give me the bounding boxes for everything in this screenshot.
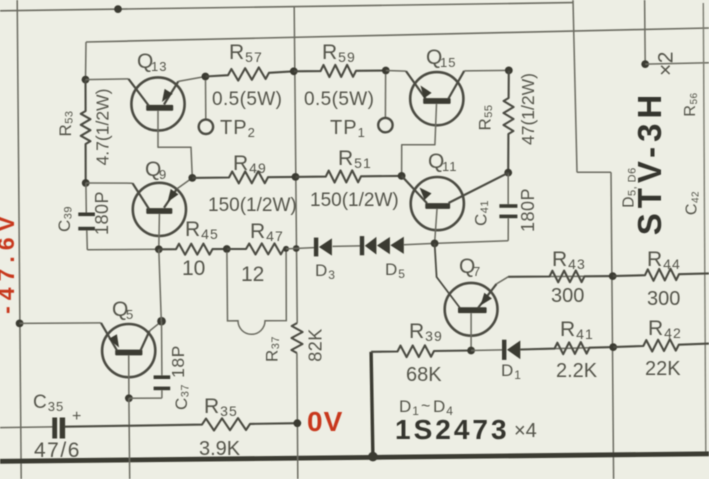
resistor R47 [227, 243, 286, 254]
resistor R51 [296, 170, 402, 182]
Q7 collector lead [435, 243, 460, 308]
test point TP1 [378, 118, 392, 132]
wire power bus top [0, 3, 573, 11]
wire C37 to Q5 base [161, 390, 163, 398]
node Q5 collector [157, 317, 166, 326]
Q5 emitter arrow [109, 334, 119, 347]
node Q11 emitter [398, 172, 406, 180]
svg-text:0.5(5W): 0.5(5W) [212, 89, 282, 110]
junction on bottom bus [368, 452, 378, 462]
wire step horizontal [577, 171, 611, 173]
wire D1 to R41 [520, 347, 613, 349]
Q5 collector lead [141, 331, 150, 351]
Q13 collector lead [86, 78, 129, 81]
node Q5 base [125, 394, 133, 402]
svg-text:2.2K: 2.2K [556, 360, 598, 382]
wire 0V rail left [0, 426, 53, 429]
svg-text:0.5(5W): 0.5(5W) [304, 89, 374, 110]
wire collector feed line [86, 28, 709, 42]
capacitor C35 [52, 418, 57, 439]
diode D3 [314, 238, 318, 257]
Q11 collector lead [449, 173, 509, 203]
resistor R49 [192, 171, 295, 183]
diode D5 first [360, 236, 364, 255]
svg-text:9: 9 [159, 167, 167, 182]
Q15 base bar [423, 98, 450, 104]
wire C41 to Q11 base node [507, 218, 509, 241]
wire thick vertical to bus [371, 352, 373, 457]
svg-text:180P: 180P [518, 188, 538, 232]
Q13 emitter arrow [162, 89, 173, 102]
capacitor C41 [499, 204, 517, 208]
resistor R44 [613, 269, 709, 281]
wire Q5 base down to bus [128, 398, 131, 479]
wire right vertical lower [611, 172, 614, 479]
Q13 emitter lead [164, 81, 178, 104]
svg-text:150(1/2W): 150(1/2W) [310, 190, 399, 211]
Q9 emitter lead [164, 189, 177, 208]
svg-text:18P: 18P [168, 345, 188, 378]
Q7 base bar [458, 307, 487, 313]
Q13 base wire to Q9 emitter node [158, 111, 192, 178]
Q15 emitter arrow [421, 86, 432, 99]
transistor Q5 [102, 324, 155, 377]
wire far-right vertical upper [644, 0, 647, 64]
resistor R39 [371, 345, 471, 357]
svg-text:12: 12 [241, 263, 264, 286]
resistor R35 on 0V line [65, 418, 298, 430]
node 0V / middle rail [293, 419, 301, 427]
resistor R41 [520, 342, 613, 354]
svg-text:3.9K: 3.9K [199, 438, 241, 460]
diode D1 [502, 340, 506, 360]
test point TP2 [199, 120, 213, 134]
node Q15 emitter [382, 67, 390, 75]
svg-text:13: 13 [151, 59, 167, 74]
svg-text:STV-3H: STV-3H [631, 90, 668, 236]
Q11 base bar [425, 203, 450, 209]
Q15 emitter lead [386, 70, 406, 73]
node Q7 base [467, 347, 475, 355]
resistor R57 [205, 67, 293, 80]
wire middle vertical rail upper [294, 7, 297, 322]
node Q11 collector [504, 169, 512, 177]
wire right edge vertical [703, 3, 706, 454]
capacitor C37 [154, 375, 171, 379]
wire D3 to D5 [333, 245, 361, 248]
wire loop under R47 [227, 249, 286, 334]
resistor R59 [294, 65, 386, 77]
node Q9 emitter [188, 174, 196, 182]
Q15 base wire to Q11 emitter node [402, 104, 437, 176]
node Q15 collector [505, 67, 513, 75]
node Q13 collector [82, 76, 90, 84]
transistor Q7 [445, 283, 498, 336]
wire to C41 [507, 173, 509, 205]
transistor Q9 [133, 183, 186, 236]
svg-text:×4: ×4 [514, 420, 537, 442]
svg-text:300: 300 [551, 285, 584, 307]
node R43/R44 [609, 272, 617, 280]
junction on top bus [114, 5, 122, 13]
svg-text:150(1/2W): 150(1/2W) [208, 195, 297, 216]
wire to D1 [471, 349, 502, 352]
Q5 base lead [128, 355, 130, 398]
node R47 right [283, 246, 289, 252]
svg-text:10: 10 [182, 257, 205, 280]
svg-text:68K: 68K [406, 364, 442, 386]
svg-text:180P: 180P [92, 191, 112, 235]
svg-text:0V: 0V [307, 406, 343, 437]
junction node right [641, 60, 649, 68]
svg-text:82K: 82K [305, 328, 325, 362]
node Q9 collector [82, 179, 90, 187]
Q9 collector lead [86, 182, 133, 184]
wire right vertical from bus end [573, 0, 577, 172]
diode D5 second [377, 237, 390, 254]
Q11 base lead [435, 209, 437, 243]
node R41/R42 [609, 343, 617, 351]
junction middle rail / diode row [293, 245, 300, 252]
svg-text:+: + [72, 408, 81, 425]
svg-text:7: 7 [473, 264, 481, 279]
svg-text:×2: ×2 [655, 51, 678, 76]
svg-text:~: ~ [421, 398, 430, 415]
svg-text:5: 5 [126, 307, 134, 322]
wire Q9 base node down to Q5 collector node [159, 249, 162, 321]
wire to D3 [286, 248, 314, 249]
node left rail to Q5 [16, 320, 24, 328]
Q7 base lead [470, 313, 472, 350]
capacitor C39 [78, 213, 95, 217]
Q5 emitter lead [20, 322, 101, 325]
Q7 emitter arrow [481, 293, 492, 306]
wire middle vertical rail lower [296, 322, 298, 323]
wire thick bottom bus [0, 454, 709, 462]
wire inner-box left drop [85, 42, 88, 80]
wire C39 to Q9 base node [86, 230, 89, 249]
svg-text:15: 15 [440, 55, 456, 70]
Q15 collector lead [449, 71, 465, 99]
wire to C39 [85, 183, 87, 213]
diode D5 third [390, 237, 403, 254]
svg-text:47(1/2W): 47(1/2W) [518, 73, 538, 145]
wire to TP1 [384, 74, 386, 118]
svg-text:11: 11 [442, 159, 458, 174]
resistor R42 [613, 339, 709, 351]
Q13 base bar [146, 105, 173, 111]
svg-text:4.7(1/2W): 4.7(1/2W) [93, 89, 113, 166]
svg-text:300: 300 [647, 288, 680, 310]
node Q9 base / R45 [155, 245, 163, 253]
wire left vertical rail [17, 0, 21, 479]
Q9 base bar [146, 208, 172, 214]
Q7 emitter lead [478, 284, 497, 308]
node Q11 base / Q7 collector [431, 240, 439, 248]
transistor Q13 [131, 77, 184, 130]
node middle rail top [290, 67, 298, 75]
Q5 base bar [115, 350, 142, 356]
Q9 emitter arrow [168, 189, 179, 202]
resistor R37 [291, 323, 302, 353]
svg-text:1S2473: 1S2473 [395, 414, 510, 445]
transistor Q15 [410, 72, 463, 125]
Q9 base lead [158, 214, 161, 249]
resistor R55 [504, 70, 514, 172]
Q11 emitter lead [402, 176, 427, 203]
wire to right edge [645, 63, 709, 64]
svg-text:47/6: 47/6 [34, 439, 81, 462]
node Q13 emitter [202, 73, 210, 81]
node middle rail mid [292, 173, 300, 181]
transistor Q11 [411, 177, 464, 230]
wire to C37 [161, 321, 163, 375]
node R45/R47 [223, 245, 231, 253]
wire D5 to Q11 base node [404, 243, 435, 244]
wire Q7 emitter row [508, 275, 613, 278]
svg-text:-47.6V: -47.6V [0, 210, 19, 314]
svg-text:22K: 22K [645, 358, 681, 380]
resistor R43 [508, 271, 613, 283]
resistor R53 [81, 80, 91, 183]
wire to TP2 [205, 80, 207, 120]
Q11 emitter arrow [420, 188, 432, 200]
resistor R45 [159, 244, 227, 255]
